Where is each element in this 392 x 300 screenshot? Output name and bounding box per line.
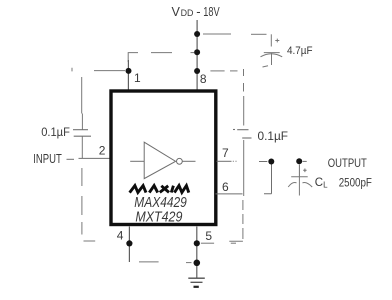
capacitor left 0.1uF bbox=[73, 130, 91, 137]
capacitor CL 2500pF bbox=[288, 177, 312, 196]
capacitor right 0.1uF bbox=[233, 130, 252, 139]
node junction pin 8 bbox=[194, 68, 200, 74]
svg-text:6: 6 bbox=[222, 180, 229, 194]
ic U1 MAX4429 box bbox=[111, 91, 216, 225]
svg-text:MXT429: MXT429 bbox=[135, 209, 183, 226]
svg-text:7: 7 bbox=[222, 146, 229, 160]
node junction VDD top bbox=[194, 31, 200, 37]
svg-text:0.1µF: 0.1µF bbox=[258, 129, 289, 143]
op-amp inverter symbol bbox=[130, 142, 195, 178]
wire pin 7 output line bbox=[217, 161, 272, 194]
wire pin 1 vertical bbox=[127, 60, 129, 90]
svg-text:8: 8 bbox=[200, 72, 207, 86]
svg-text:INPUT: INPUT bbox=[33, 152, 62, 166]
wire INPUT line bbox=[67, 157, 111, 160]
wire right bypass dashed vertical bbox=[229, 69, 243, 241]
ground bbox=[188, 278, 205, 287]
wire pin 5 vertical bbox=[196, 227, 198, 279]
node junction pin 4 bbox=[126, 240, 132, 246]
wire VDD vertical bbox=[196, 20, 198, 90]
svg-text:2500pF: 2500pF bbox=[339, 177, 372, 189]
wire pin 6 line bbox=[216, 193, 243, 195]
wire bottom dashed ground return bbox=[139, 261, 192, 264]
logo MAXIM bbox=[130, 186, 189, 193]
svg-text:-: - bbox=[196, 4, 200, 19]
svg-text:0.1µF: 0.1µF bbox=[41, 127, 70, 139]
wire dashed rail y52 to pin1 bbox=[128, 53, 194, 62]
wire output stub bbox=[299, 161, 306, 176]
capacitor C1 4.7uF bbox=[261, 34, 283, 67]
wire dashed rail y70 left bbox=[72, 68, 125, 72]
svg-text:DD: DD bbox=[181, 8, 194, 18]
node junction pin 5 bbox=[194, 240, 200, 246]
wire dashed rail y71 right bbox=[210, 70, 237, 72]
svg-text:5: 5 bbox=[205, 229, 212, 243]
svg-text:V: V bbox=[172, 4, 181, 19]
svg-text:4: 4 bbox=[117, 229, 124, 243]
node junction output pin7 bbox=[268, 159, 274, 165]
svg-text:OUTPUT: OUTPUT bbox=[328, 156, 368, 170]
svg-text:1: 1 bbox=[134, 71, 141, 85]
svg-text:CL: CL bbox=[315, 177, 328, 190]
wire pin5 right dashes bbox=[201, 242, 236, 244]
svg-text:2: 2 bbox=[99, 144, 106, 158]
svg-text:18V: 18V bbox=[203, 4, 220, 19]
node junction pin 1 bbox=[126, 68, 132, 74]
wire dashed to C1 bbox=[203, 33, 267, 35]
node junction ground bbox=[194, 260, 201, 267]
node junction VDD mid bbox=[194, 49, 200, 55]
node junction output CL bbox=[296, 158, 302, 164]
wire pin 4 vertical bbox=[128, 227, 130, 263]
wire left bypass dashed vertical bbox=[82, 77, 96, 241]
svg-text:4.7µF: 4.7µF bbox=[287, 45, 313, 57]
